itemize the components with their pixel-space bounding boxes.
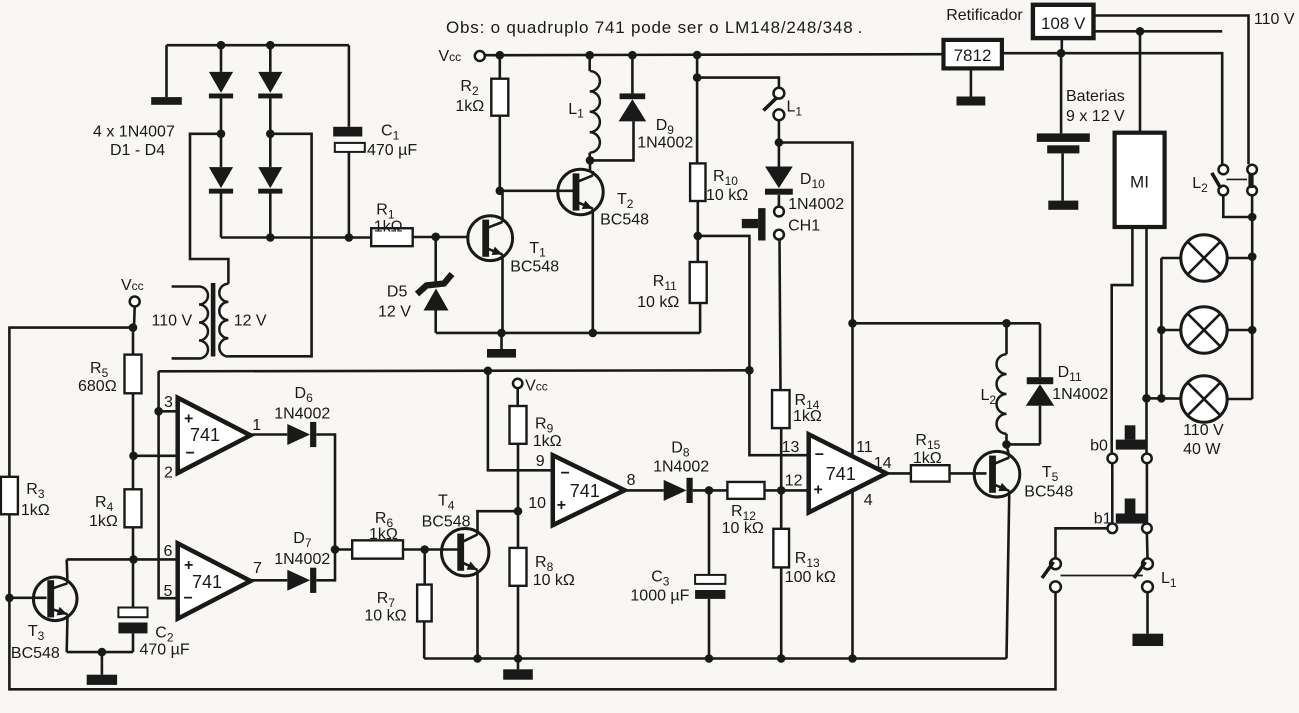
wire bridge top rail — [167, 44, 349, 47]
wire 7812 to L2 switch rail — [1002, 53, 1222, 165]
svg-text:−: − — [186, 445, 195, 462]
wire branch to L1 switch — [697, 78, 779, 88]
svg-text:Retificador: Retificador — [946, 7, 1023, 24]
diode D11 — [1039, 323, 1042, 377]
resistor R15 — [911, 465, 950, 481]
resistor R5 — [132, 328, 135, 355]
wire junction to T2 collector — [589, 160, 592, 171]
switch L2 left — [1219, 165, 1229, 175]
svg-text:−: − — [815, 447, 824, 464]
wire op3 output — [625, 489, 664, 492]
wire op1 output — [251, 433, 288, 436]
wire summing node to R6 — [335, 548, 352, 551]
regulator 7812 box — [944, 40, 1002, 69]
svg-text:2: 2 — [164, 465, 173, 482]
svg-text:40 W: 40 W — [1183, 441, 1221, 458]
wire R6 to T4 base — [403, 548, 458, 551]
wire MI right lead to b0 — [1145, 227, 1148, 454]
wire b1 left to bottom switch — [1056, 528, 1108, 558]
ground below C2 — [101, 652, 104, 675]
svg-text:Vcc: Vcc — [525, 378, 548, 395]
svg-text:−: − — [561, 465, 570, 482]
wire op1 pin3 — [159, 410, 178, 413]
transistor Q T3 — [33, 577, 77, 621]
svg-text:1N4002: 1N4002 — [788, 196, 844, 213]
ground below T1 — [500, 333, 503, 349]
inductor L2 coil — [1005, 323, 1008, 354]
svg-text:100 kΩ: 100 kΩ — [785, 569, 836, 586]
transistor Q T2 — [558, 169, 603, 214]
svg-text:BC548: BC548 — [600, 212, 649, 229]
svg-text:BC548: BC548 — [1024, 484, 1073, 501]
svg-text:10 kΩ: 10 kΩ — [533, 572, 575, 589]
ground below R8 — [517, 659, 520, 670]
wire b0 to b1 right — [1146, 463, 1149, 523]
node op1 pin3 junction — [154, 407, 163, 416]
lamp X3 110V 40W — [1181, 376, 1227, 422]
node bridge top junctions — [217, 41, 226, 50]
svg-text:10 kΩ: 10 kΩ — [637, 294, 679, 311]
wire R1 to T1 base — [413, 236, 468, 239]
wire R2 to T1 collector node — [498, 116, 501, 191]
transformer core — [211, 283, 216, 357]
svg-text:5: 5 — [164, 583, 173, 600]
pushbutton CH1 — [774, 207, 784, 217]
diode D6 — [287, 424, 310, 445]
diode D4 — [258, 167, 282, 188]
node Vcc top terminal — [475, 51, 485, 61]
resistor R7 — [423, 550, 426, 585]
svg-text:3: 3 — [164, 394, 173, 411]
svg-text:741: 741 — [826, 464, 856, 484]
wire L2 bottoms join — [1223, 195, 1252, 217]
wire R14 to pin12 node — [780, 428, 783, 529]
wire b1 right to bottom switch — [1146, 533, 1149, 558]
svg-text:+: + — [557, 497, 566, 514]
wire mid rail — [424, 657, 1006, 660]
wire b0 to b1 left — [1111, 463, 1114, 523]
svg-text:7: 7 — [253, 560, 262, 577]
wire op2 output — [251, 579, 288, 582]
svg-text:741: 741 — [570, 481, 600, 501]
resistor R1 — [371, 228, 413, 246]
resistor R2 — [496, 51, 505, 60]
wire switch link — [1061, 575, 1143, 577]
transistor Q T5 — [974, 451, 1020, 497]
svg-text:4: 4 — [864, 492, 873, 509]
svg-text:12 V: 12 V — [234, 313, 267, 330]
svg-text:1kΩ: 1kΩ — [369, 526, 398, 543]
rectifier 108V box — [1033, 5, 1094, 38]
node L2 D11 T5 junction — [1002, 440, 1011, 449]
node bus to op3 pin9 junction — [484, 367, 493, 376]
wire L1 switch to D10 node — [778, 120, 781, 166]
wire MI top lead — [1139, 31, 1142, 132]
wire D6 to summing node — [316, 435, 335, 550]
svg-text:Vcc: Vcc — [121, 277, 144, 294]
wire AC left to transformer secondary top — [190, 134, 228, 284]
svg-text:108 V: 108 V — [1041, 14, 1086, 33]
resistor R3 — [1, 477, 18, 515]
svg-text:1kΩ: 1kΩ — [793, 408, 822, 425]
diode D7 — [287, 570, 310, 591]
inductor L1 coil — [585, 51, 594, 60]
svg-text:10: 10 — [528, 495, 546, 512]
battery Baterias 9x12V — [1060, 53, 1063, 133]
wire op1 pin2 — [134, 454, 178, 457]
wire T2 base — [500, 190, 574, 193]
resistor R8 — [510, 548, 527, 586]
svg-text:1kΩ: 1kΩ — [89, 513, 118, 530]
svg-text:1kΩ: 1kΩ — [374, 219, 403, 236]
wire CH1 to R14 — [780, 240, 781, 391]
resistor R4 — [132, 456, 135, 490]
wire R9 to pin10 node — [517, 444, 520, 548]
capacitor C3 — [708, 490, 711, 575]
wire D8 to R12 — [693, 489, 728, 492]
svg-text:1kΩ: 1kΩ — [21, 502, 50, 519]
svg-text:10 kΩ: 10 kΩ — [706, 187, 748, 204]
wire junction to D11 — [1007, 443, 1041, 446]
wire 110V top line — [1094, 16, 1249, 165]
wire lamps right bus — [1251, 217, 1254, 399]
transformer secondary 12V winding — [219, 284, 228, 357]
wire R15 to T5 base — [950, 472, 987, 475]
node Vcc mid terminal — [513, 379, 522, 388]
svg-text:1000 µF: 1000 µF — [630, 588, 689, 605]
zener diode D5 — [434, 237, 437, 283]
svg-text:b1: b1 — [1094, 511, 1112, 528]
diode D8 — [664, 480, 687, 501]
capacitor C1 — [348, 45, 351, 127]
wire T3 base — [9, 596, 46, 599]
wire R7 to mid rail — [423, 621, 426, 658]
capacitor C2 — [118, 608, 147, 618]
wire R10 to R11 node — [696, 201, 699, 262]
svg-text:110 V: 110 V — [1183, 422, 1224, 439]
wire junction left to R3 — [9, 328, 133, 477]
diode D1 — [220, 45, 223, 72]
svg-text:D5: D5 — [387, 284, 408, 301]
wire op4 output — [886, 472, 911, 475]
svg-text:1kΩ: 1kΩ — [913, 450, 942, 467]
wire D7 to summing node — [316, 550, 335, 581]
svg-text:7812: 7812 — [954, 46, 992, 65]
wire R12 to op4 pin12 — [765, 489, 809, 492]
wire C2 bottom to T3 emitter — [67, 651, 133, 654]
svg-text:10 kΩ: 10 kΩ — [722, 520, 764, 537]
node bridge AC junctions — [217, 130, 226, 139]
svg-text:741: 741 — [190, 425, 220, 445]
svg-text:D1 - D4: D1 - D4 — [110, 142, 165, 159]
ground below 7812 — [970, 68, 973, 96]
svg-text:110 V: 110 V — [152, 313, 193, 330]
svg-text:MI: MI — [1130, 173, 1149, 192]
svg-text:470 µF: 470 µF — [367, 142, 417, 159]
resistor R12 — [727, 482, 764, 499]
resistor R9 — [510, 406, 527, 444]
wire rail up to R11 — [699, 303, 702, 333]
resistor R14 — [772, 390, 790, 428]
resistor R13 — [773, 529, 789, 568]
svg-text:BC548: BC548 — [422, 514, 471, 531]
wire AC right to transformer secondary bottom — [228, 134, 311, 356]
pushbutton b1 — [1108, 524, 1118, 534]
diode D3 — [209, 167, 233, 188]
svg-text:12 V: 12 V — [378, 304, 411, 321]
svg-text:−: − — [184, 590, 193, 607]
svg-text:1N4002: 1N4002 — [1052, 386, 1108, 403]
ground bottom right — [1132, 634, 1163, 646]
wire R10 node to op4 pin13 — [698, 236, 809, 455]
resistor R6 — [352, 540, 403, 558]
node summing junction — [331, 545, 340, 554]
svg-text:1kΩ: 1kΩ — [533, 433, 562, 450]
lamp X2 110V 40W — [1181, 307, 1227, 353]
resistor R11 — [690, 262, 707, 303]
wire 108V to MI stub — [1094, 30, 1223, 33]
pushbutton b0 — [1108, 454, 1118, 464]
wire op2 pin6 — [67, 558, 178, 561]
wire zero rail — [436, 332, 700, 335]
op-amp U1 741 — [178, 398, 251, 473]
wire lamps left bus — [1160, 258, 1163, 398]
svg-text:1kΩ: 1kΩ — [455, 98, 484, 115]
transistor Q T4 — [442, 529, 489, 576]
wire D10 to CH1 — [778, 195, 781, 207]
diode D9 — [628, 51, 637, 60]
wire R5 to pin2 node — [132, 393, 135, 456]
ground top-left — [165, 45, 168, 97]
transformer primary 110V winding — [172, 285, 199, 288]
wire bridge bottom rail — [221, 236, 371, 239]
wire L2 branch top — [853, 322, 1041, 325]
svg-text:1N4002: 1N4002 — [274, 551, 330, 568]
node L1 D9 T2 junction — [586, 156, 595, 165]
resistor R10 — [696, 78, 699, 164]
svg-text:9 x 12 V: 9 x 12 V — [1066, 108, 1125, 125]
svg-text:741: 741 — [192, 572, 222, 592]
svg-text:+: + — [184, 557, 193, 574]
wire outer bottom rail — [9, 592, 1055, 689]
wire node to L2 branch — [779, 143, 853, 659]
svg-text:4 x 1N4007: 4 x 1N4007 — [93, 124, 175, 141]
wire MI left lead to b0 — [1112, 227, 1133, 454]
node Vcc left terminal — [130, 297, 140, 307]
svg-text:+: + — [184, 411, 193, 428]
wire R8 to mid rail — [517, 586, 520, 659]
svg-text:1N4002: 1N4002 — [274, 406, 330, 423]
transistor Q T1 — [468, 216, 513, 261]
svg-text:+: + — [814, 482, 823, 499]
wire right switch to ground — [1146, 592, 1149, 634]
diode D10 — [765, 167, 793, 189]
wire bus to op3 pin9 — [488, 371, 553, 471]
wire input bus vertical to op2 pin5 — [159, 371, 178, 598]
switch L1 top — [774, 88, 785, 99]
svg-text:1N4002: 1N4002 — [653, 459, 709, 476]
op-amp U3 741 — [553, 455, 625, 525]
svg-text:BC548: BC548 — [510, 258, 559, 275]
svg-text:Vcc: Vcc — [439, 48, 462, 65]
svg-text:1N4002: 1N4002 — [637, 135, 693, 152]
wire Vcc rail — [485, 54, 944, 55]
svg-text:13: 13 — [782, 439, 800, 456]
svg-text:680Ω: 680Ω — [78, 378, 117, 395]
diode D2 — [269, 45, 272, 72]
svg-text:1: 1 — [252, 417, 261, 434]
wire Vcc to junction — [133, 307, 136, 328]
svg-text:12: 12 — [785, 472, 803, 489]
wire b0 node to lamp3 — [1147, 397, 1183, 400]
wire input bus horizontal — [159, 370, 750, 371]
node Vcc rail to R10 branch — [693, 51, 702, 60]
lamp X1 110V 40W — [1181, 235, 1227, 281]
wire R3 to T3 base node — [8, 514, 11, 598]
wire Vcc to R9 — [516, 388, 519, 406]
op-amp U2 741 — [178, 543, 251, 618]
svg-text:14: 14 — [874, 455, 892, 472]
wire 108V to battery node — [1061, 38, 1064, 53]
svg-text:470 µF: 470 µF — [140, 642, 190, 659]
module MI box — [1115, 133, 1165, 227]
svg-text:10 kΩ: 10 kΩ — [364, 608, 406, 625]
svg-text:6: 6 — [164, 543, 173, 560]
op-amp U4 741 — [809, 434, 887, 512]
svg-text:Baterias: Baterias — [1066, 88, 1125, 105]
svg-text:11: 11 — [856, 439, 873, 456]
wire pin6 node to C2 — [132, 559, 135, 607]
svg-text:CH1: CH1 — [788, 218, 820, 235]
switch bottom right L1 — [1142, 558, 1153, 569]
wire R4 to pin6 node — [132, 527, 135, 559]
switch bottom left — [1050, 558, 1061, 569]
svg-text:b0: b0 — [1090, 438, 1108, 455]
svg-text:Obs: o quadruplo 741 pode ser: Obs: o quadruplo 741 pode ser o LM148/24… — [446, 18, 863, 37]
wire R13 to mid rail — [780, 567, 783, 658]
svg-text:9: 9 — [536, 453, 545, 470]
svg-text:8: 8 — [627, 472, 636, 489]
svg-text:BC548: BC548 — [11, 645, 60, 662]
svg-text:110 V: 110 V — [1254, 11, 1295, 28]
wire L2 mechanical link — [1227, 178, 1248, 180]
switch L2 right — [1247, 165, 1257, 175]
